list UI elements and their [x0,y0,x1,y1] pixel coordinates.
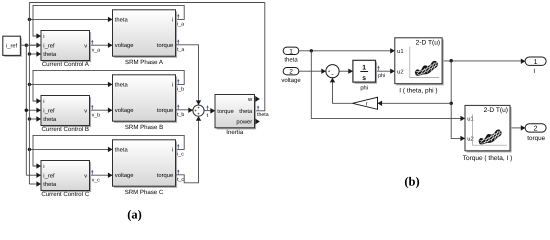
svg-text:i_a: i_a [177,22,184,28]
svg-text:I: I [533,68,535,75]
svg-text:t_c: t_c [177,177,184,183]
svg-text:1: 1 [362,65,366,72]
svg-text:phi: phi [378,73,385,79]
svg-text:2-D T(u): 2-D T(u) [484,107,508,114]
svg-text:theta: theta [257,112,269,118]
svg-text:theta: theta [239,108,253,115]
svg-text:voltage: voltage [115,172,134,179]
svg-text:torque: torque [157,108,173,114]
svg-text:2: 2 [534,126,538,133]
svg-text:v: v [84,43,87,49]
svg-text:SRM Phase A: SRM Phase A [125,59,164,66]
svg-text:i_c: i_c [177,152,184,158]
svg-text:theta: theta [284,56,298,63]
svg-text:SRM Phase C: SRM Phase C [125,189,164,196]
svg-text:Current Control A: Current Control A [42,61,90,68]
svg-text:theta: theta [115,146,129,153]
svg-text:r: r [366,101,368,107]
svg-text:torque: torque [157,173,173,179]
svg-text:i: i [43,163,44,170]
svg-text:v: v [84,108,87,114]
svg-text:v_b: v_b [92,113,100,119]
svg-text:theta: theta [43,116,57,123]
svg-text:Current Control B: Current Control B [42,126,89,133]
svg-text:theta: theta [43,51,57,58]
svg-text:i: i [172,146,173,153]
svg-text:SRM Phase B: SRM Phase B [125,124,163,131]
svg-text:i: i [43,33,44,40]
svg-text:torque: torque [527,135,545,142]
svg-text:Inertia: Inertia [226,129,244,136]
svg-text:(b): (b) [404,175,419,189]
svg-text:t_a: t_a [177,47,184,53]
svg-text:theta: theta [43,181,57,188]
svg-text:v_c: v_c [92,178,100,184]
svg-text:i: i [43,98,44,105]
svg-text:v: v [84,173,87,179]
svg-text:voltage: voltage [115,42,134,49]
svg-text:v_a: v_a [92,48,100,54]
svg-text:i: i [172,81,173,88]
svg-text:s: s [362,75,366,82]
svg-text:1: 1 [534,59,538,66]
svg-text:1: 1 [289,48,293,55]
svg-text:t_b: t_b [177,112,184,118]
svg-text:i_ref: i_ref [6,43,17,50]
svg-text:2: 2 [289,69,293,76]
svg-text:I ( theta, phi ): I ( theta, phi ) [399,88,437,95]
svg-text:(a): (a) [127,208,142,222]
svg-text:2-D T(u): 2-D T(u) [416,39,440,46]
svg-text:i: i [172,16,173,23]
svg-text:voltage: voltage [281,77,301,84]
svg-text:i_ref: i_ref [43,42,55,49]
svg-text:Current Control C: Current Control C [41,191,89,198]
svg-text:voltage: voltage [115,107,134,114]
svg-text:u2: u2 [397,68,403,75]
svg-text:torque: torque [157,43,173,49]
svg-text:theta: theta [115,16,129,23]
svg-text:Torque ( theta, I ): Torque ( theta, I ) [463,155,513,162]
svg-text:u1: u1 [397,49,403,55]
svg-text:torque: torque [217,109,233,115]
svg-text:i_b: i_b [177,87,184,93]
svg-text:phi: phi [360,85,368,92]
svg-text:theta: theta [115,81,129,88]
svg-text:i_ref: i_ref [43,172,55,179]
svg-text:i_ref: i_ref [43,107,55,114]
svg-text:power: power [236,120,252,126]
svg-text:w: w [247,97,253,103]
